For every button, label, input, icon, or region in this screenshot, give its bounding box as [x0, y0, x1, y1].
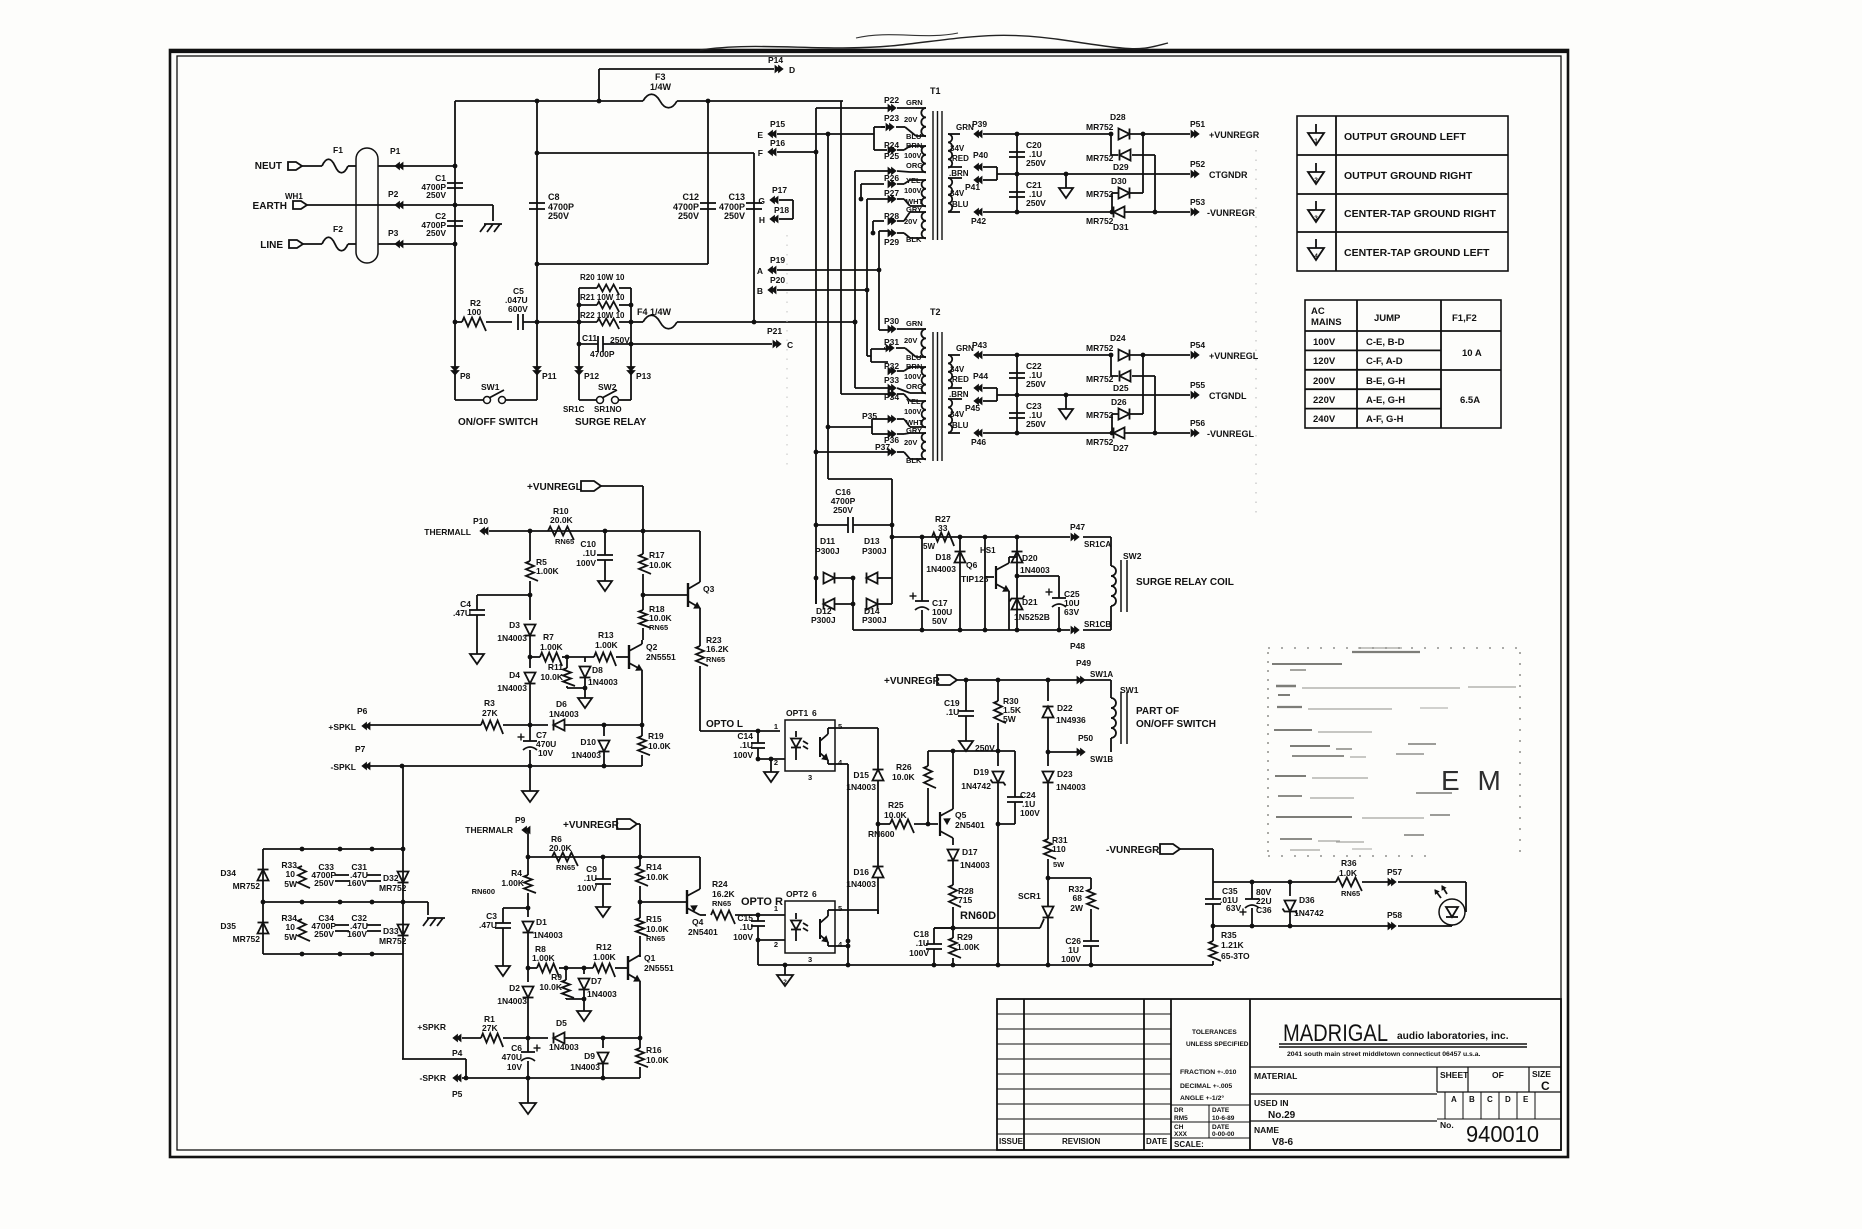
svg-text:.1U: .1U: [740, 740, 753, 750]
svg-text:D5: D5: [556, 1018, 567, 1028]
wire OPT2 bottom to rail: [757, 940, 759, 965]
diode D27 MR752: [1114, 428, 1125, 439]
svg-text:+VUNREGR: +VUNREGR: [563, 820, 620, 831]
svg-text:6: 6: [812, 889, 817, 899]
ground under C10: [598, 581, 612, 591]
svg-text:P300J: P300J: [862, 546, 887, 556]
ground under C19: [959, 741, 973, 751]
svg-text:-VUNREGR: -VUNREGR: [1106, 845, 1160, 856]
wire bottom of C8/C12 loop: [537, 263, 708, 265]
chassis ground of bank: [427, 902, 429, 915]
wire base row y657: [528, 655, 533, 660]
scan artifact wavy line top: [700, 35, 1168, 50]
capacitor C23: [1016, 395, 1018, 433]
svg-text:SW2: SW2: [598, 382, 617, 392]
wire flag to rail: [601, 485, 643, 487]
transformer T1 secondary winding lower: [948, 178, 952, 212]
svg-text:P43: P43: [972, 340, 987, 350]
svg-text:CENTER-TAP GROUND LEFT: CENTER-TAP GROUND LEFT: [1344, 247, 1490, 259]
svg-text:P5: P5: [452, 1089, 463, 1099]
svg-text:audio laboratories, inc.: audio laboratories, inc.: [1397, 1031, 1509, 1042]
wire relay mid y576: [1017, 575, 1059, 577]
svg-text:100V: 100V: [904, 151, 922, 160]
svg-text:R19: R19: [648, 731, 664, 741]
capacitor C35 .01U 63V: [1205, 898, 1221, 900]
fold line dotted: [1255, 150, 1257, 520]
svg-text:C12: C12: [682, 192, 699, 202]
wire routing vertical V1 x816: [815, 108, 817, 604]
svg-text:YEL: YEL: [906, 397, 921, 406]
connector P12: [575, 367, 583, 372]
OPT1 internal LED: [795, 731, 797, 737]
svg-text:R26: R26: [896, 762, 912, 772]
svg-text:20V: 20V: [904, 217, 917, 226]
svg-text:C11: C11: [582, 333, 597, 343]
svg-text:R35: R35: [1221, 930, 1237, 940]
svg-text:P58: P58: [1387, 910, 1402, 920]
capacitor C2: [447, 220, 463, 222]
diode D31 MR752: [1114, 207, 1125, 218]
svg-text:MR752: MR752: [1086, 343, 1114, 353]
diode D1 1N4003: [527, 908, 529, 917]
resistor R24 16.2K RN65: [711, 911, 735, 925]
wire T1 +V rail y134: [1017, 133, 1112, 135]
svg-text:B-E, G-H: B-E, G-H: [1366, 376, 1405, 387]
svg-text:F1: F1: [333, 145, 343, 155]
svg-text:OPT2: OPT2: [786, 889, 808, 899]
svg-text:120V: 120V: [1313, 356, 1336, 367]
wire to P14: [598, 69, 600, 101]
sheet letter strip A-E: [1437, 1091, 1561, 1093]
svg-text:B: B: [757, 286, 763, 296]
wire C14 to pin2: [758, 758, 785, 760]
svg-text:P21: P21: [767, 326, 782, 336]
svg-text:P300J: P300J: [862, 615, 887, 625]
wire R9-D7 join: [566, 998, 584, 1000]
svg-text:BLK: BLK: [906, 235, 922, 244]
svg-text:FRACTION +-.010: FRACTION +-.010: [1180, 1069, 1237, 1076]
svg-text:D33: D33: [383, 926, 399, 936]
svg-text:100V: 100V: [904, 407, 922, 416]
svg-text:THERMALL: THERMALL: [424, 527, 471, 537]
svg-text:MATERIAL: MATERIAL: [1254, 1071, 1297, 1081]
svg-text:D19: D19: [973, 767, 989, 777]
svg-text:P22: P22: [884, 95, 899, 105]
wire P28 jog: [872, 221, 874, 233]
capacitor C21: [1016, 174, 1018, 212]
resistor R16 10.0K: [639, 1038, 641, 1048]
svg-text:P6: P6: [357, 706, 368, 716]
svg-text:USED IN: USED IN: [1254, 1098, 1288, 1108]
svg-text:D10: D10: [580, 737, 596, 747]
resistor R28 715: [949, 885, 961, 907]
transformer T1 core: [932, 111, 934, 240]
svg-text:5W: 5W: [1053, 860, 1065, 869]
diode D8 1N4003: [584, 657, 586, 662]
svg-text:P12: P12: [584, 371, 599, 381]
wire OPT1 pin4 down: [836, 763, 848, 765]
diode D12 P300J: [815, 578, 817, 604]
svg-text:OUTPUT GROUND LEFT: OUTPUT GROUND LEFT: [1344, 131, 1466, 143]
svg-text:1N4003: 1N4003: [926, 564, 956, 574]
svg-text:D30: D30: [1111, 176, 1127, 186]
svg-text:NAME: NAME: [1254, 1125, 1279, 1135]
svg-text:C-F, A-D: C-F, A-D: [1366, 356, 1403, 367]
svg-text:P48: P48: [1070, 641, 1085, 651]
connector P8: [451, 367, 459, 372]
svg-text:1N4003: 1N4003: [846, 782, 876, 792]
wire bank left rail: [262, 849, 264, 954]
svg-text:20V: 20V: [904, 115, 917, 124]
revision table rows: [997, 1013, 1171, 1015]
svg-text:100V: 100V: [1061, 954, 1081, 964]
svg-text:D24: D24: [1110, 333, 1126, 343]
border frame outer: [170, 50, 1568, 1157]
svg-text:MR752: MR752: [1086, 122, 1114, 132]
transformer T2 primary winding group1: [921, 329, 926, 357]
diode D22 1N4936: [1047, 680, 1049, 701]
ground below C6: [527, 1078, 529, 1103]
svg-text:RN65: RN65: [712, 899, 731, 908]
wire to OPT1: [700, 730, 758, 732]
wire base row y968: [528, 967, 537, 969]
svg-text:220V: 220V: [1313, 395, 1336, 406]
svg-text:-SPKR: -SPKR: [420, 1073, 446, 1083]
diode D18 1N4003: [959, 537, 961, 630]
capacitor C6 470U 10V: [527, 1038, 529, 1052]
svg-text:MR752: MR752: [233, 934, 261, 944]
svg-text:100V: 100V: [904, 186, 922, 195]
svg-text:P300J: P300J: [811, 615, 836, 625]
resistor R26 10.0K: [927, 751, 929, 766]
diode D5 1N4003: [554, 1033, 565, 1044]
svg-text:10.0K: 10.0K: [649, 613, 673, 623]
resistor R35 1.21K 65-3TO: [1212, 926, 1214, 941]
diode D16 1N4003: [877, 824, 879, 866]
wire routing vertical V6 x879: [878, 231, 880, 330]
border frame inner: [177, 56, 1561, 1150]
svg-text:Q3: Q3: [703, 584, 715, 594]
svg-text:200V: 200V: [1313, 376, 1336, 387]
resistor R13 1.00K: [567, 656, 594, 658]
wire P15 jog to P23/P24: [873, 127, 875, 150]
svg-text:A-F, G-H: A-F, G-H: [1366, 414, 1404, 425]
resistor R19 10.0K: [641, 725, 643, 736]
capacitor C24 .1U 100V: [1014, 751, 1016, 797]
svg-text:RN65: RN65: [1341, 889, 1360, 898]
svg-text:OPT1: OPT1: [786, 708, 808, 718]
svg-text:R15: R15: [646, 914, 662, 924]
svg-text:SURGE RELAY: SURGE RELAY: [575, 417, 647, 428]
svg-text:+VUNREGR: +VUNREGR: [1209, 130, 1260, 140]
svg-text:SR1CA: SR1CA: [1084, 540, 1111, 549]
diode D21 1N5252B zener: [1016, 576, 1018, 630]
svg-text:G: G: [758, 196, 765, 206]
svg-text:D3: D3: [509, 620, 520, 630]
svg-text:MR752: MR752: [379, 936, 407, 946]
wire -SPKL y766: [370, 765, 642, 767]
svg-text:R4: R4: [511, 868, 522, 878]
cable jacket oval: [356, 148, 378, 263]
svg-text:2N5401: 2N5401: [688, 927, 718, 937]
svg-text:P47: P47: [1070, 522, 1085, 532]
svg-text:DATE: DATE: [1212, 1124, 1230, 1131]
diode D19 1N4742 zener: [997, 751, 999, 766]
wire bus y153: [537, 152, 754, 154]
diode D20 1N4003: [1016, 537, 1018, 576]
svg-text:P15: P15: [770, 119, 785, 129]
svg-text:MR752: MR752: [233, 881, 261, 891]
resistor R7 1.00K: [540, 653, 562, 667]
svg-text:P1: P1: [390, 146, 401, 156]
svg-text:GRN: GRN: [906, 319, 923, 328]
transformer T2 primary winding group3: [922, 401, 926, 427]
svg-text:1N4003: 1N4003: [1020, 565, 1050, 575]
svg-text:D25: D25: [1113, 383, 1129, 393]
ground symbol 3: [1315, 201, 1317, 210]
svg-text:REVISION: REVISION: [1062, 1137, 1100, 1146]
wire earth ground jog: [455, 204, 493, 206]
wire OPT1 pin5 to D15: [836, 727, 878, 729]
svg-text:R22 10W 10: R22 10W 10: [580, 311, 625, 320]
wire P50 to D23 node: [1048, 751, 1078, 753]
svg-text:P55: P55: [1190, 380, 1205, 390]
svg-text:100V: 100V: [733, 932, 753, 942]
capacitor C14 .1U 100V: [757, 731, 759, 743]
svg-text:P8: P8: [460, 371, 471, 381]
svg-text:P54: P54: [1190, 340, 1205, 350]
svg-text:SCALE:: SCALE:: [1174, 1140, 1204, 1149]
svg-text:1N4003: 1N4003: [846, 879, 876, 889]
svg-text:D7: D7: [591, 976, 602, 986]
svg-text:DECIMAL +-.005: DECIMAL +-.005: [1180, 1083, 1232, 1090]
wire +SPKR y1038: [462, 1037, 481, 1039]
svg-text:D11: D11: [820, 536, 835, 546]
transistor Q2 2N5551: [628, 645, 630, 669]
diode D9 1N4003: [602, 1038, 604, 1048]
svg-text:.1U: .1U: [946, 707, 959, 717]
switch SW2 surge relay contact: [597, 397, 604, 404]
svg-text:PART OF: PART OF: [1136, 706, 1179, 717]
svg-text:D2: D2: [509, 983, 520, 993]
svg-text:R36: R36: [1341, 858, 1357, 868]
svg-text:D: D: [789, 65, 795, 75]
svg-text:CTGNDR: CTGNDR: [1209, 170, 1248, 180]
svg-text:P46: P46: [971, 437, 986, 447]
wire routing vertical V3 x841: [840, 101, 842, 394]
svg-text:P3: P3: [388, 228, 399, 238]
svg-text:P25: P25: [884, 151, 899, 161]
resistor R15 10.0K RN65: [639, 902, 641, 918]
svg-text:BLU: BLU: [952, 200, 969, 209]
resistor R18 10.0K RN65: [639, 610, 651, 628]
capacitor C18 .1U 100V: [934, 927, 953, 929]
resistor R3 27K: [481, 721, 503, 735]
svg-text:OUTPUT GROUND RIGHT: OUTPUT GROUND RIGHT: [1344, 170, 1473, 182]
svg-text:6: 6: [812, 708, 817, 718]
svg-text:470U: 470U: [502, 1052, 522, 1062]
svg-text:D23: D23: [1057, 769, 1073, 779]
capacitor C26 1U 100V: [1083, 940, 1099, 942]
optocoupler OPT1 box: [785, 720, 835, 771]
svg-text:CENTER-TAP GROUND RIGHT: CENTER-TAP GROUND RIGHT: [1344, 208, 1496, 220]
capacitor C25 10U 63V: [1058, 576, 1060, 598]
capacitor C36 22U 80V: [1251, 882, 1253, 899]
svg-text:100: 100: [467, 307, 481, 317]
svg-text:250V: 250V: [548, 211, 569, 221]
capacitor C19 .1U: [965, 680, 967, 711]
svg-text:MR752: MR752: [1086, 374, 1114, 384]
transistor Q5 2N5401: [939, 812, 941, 836]
revision table columns: [1023, 999, 1025, 1150]
svg-text:2: 2: [1314, 177, 1318, 184]
svg-text:No.29: No.29: [1268, 1110, 1296, 1121]
svg-text:A-E, G-H: A-E, G-H: [1366, 395, 1405, 406]
svg-text:Q1: Q1: [644, 953, 656, 963]
svg-text:P2: P2: [388, 189, 399, 199]
svg-text:TIP125: TIP125: [961, 574, 989, 584]
svg-text:1N4003: 1N4003: [497, 996, 527, 1006]
capacitor C16: [816, 524, 848, 526]
svg-text:10.0K: 10.0K: [648, 741, 672, 751]
svg-text:P30: P30: [884, 316, 899, 326]
svg-text:C36: C36: [1256, 905, 1272, 915]
ground symbol 4: [1315, 239, 1317, 248]
svg-text:P35: P35: [862, 411, 877, 421]
svg-text:5: 5: [838, 904, 842, 913]
svg-text:P56: P56: [1190, 418, 1205, 428]
svg-text:68: 68: [1073, 893, 1083, 903]
connector P11: [533, 367, 541, 372]
svg-text:P51: P51: [1190, 119, 1205, 129]
transformer T2 secondary winding lower: [948, 399, 952, 433]
svg-text:P44: P44: [973, 371, 988, 381]
svg-text:100V: 100V: [904, 372, 922, 381]
svg-text:+VUNREGR: +VUNREGR: [884, 676, 941, 687]
svg-text:250V: 250V: [1026, 419, 1046, 429]
wire OPT2 pin5 corner: [836, 909, 878, 911]
wire flag corner: [1180, 848, 1213, 850]
diode D29 MR752: [1110, 134, 1112, 155]
wire R bank right rail: [630, 288, 632, 400]
used in row: [1250, 1093, 1437, 1095]
svg-text:E: E: [757, 130, 763, 140]
svg-text:P4: P4: [452, 1048, 463, 1058]
svg-text:RED: RED: [952, 375, 969, 384]
transistor Q6 TIP125: [984, 537, 986, 630]
svg-text:-SPKL: -SPKL: [331, 762, 357, 772]
svg-text:2041 south main street middlet: 2041 south main street middletown connec…: [1287, 1051, 1481, 1058]
svg-text:1: 1: [1314, 138, 1318, 145]
dr/date rows: [1171, 1104, 1250, 1106]
svg-text:-VUNREGL: -VUNREGL: [1207, 429, 1255, 439]
resistor R33 10 5W: [298, 866, 310, 888]
switch SW1 on/off: [484, 397, 491, 404]
ground center-tap left: [1065, 395, 1067, 409]
SCR1 crowbar: [1047, 859, 1049, 906]
svg-text:250V: 250V: [426, 190, 446, 200]
diode D11 P300J: [816, 577, 818, 579]
svg-text:D4: D4: [509, 670, 520, 680]
svg-text:1N4003: 1N4003: [571, 750, 601, 760]
ground on rail: [784, 965, 786, 975]
svg-text:1.00K: 1.00K: [501, 878, 525, 888]
capacitor C4 .47U: [477, 594, 530, 596]
svg-text:1N4742: 1N4742: [961, 781, 991, 791]
svg-text:RED: RED: [952, 154, 969, 163]
svg-text:A: A: [1451, 1095, 1457, 1104]
diode D32 MR752: [398, 872, 409, 883]
resistor R6 20.0K: [552, 853, 578, 867]
svg-text:No.: No.: [1440, 1120, 1454, 1130]
svg-text:ORG: ORG: [906, 161, 923, 170]
ground below C7: [529, 766, 531, 791]
wire bank mid rail y902: [263, 901, 428, 903]
svg-text:JUMP: JUMP: [1374, 313, 1401, 324]
transformer T1 primary winding 100V group2: [922, 146, 926, 172]
svg-text:RN65: RN65: [646, 934, 665, 943]
svg-text:C13: C13: [728, 192, 745, 202]
svg-text:SW1: SW1: [1120, 685, 1139, 695]
svg-text:+VUNREGL: +VUNREGL: [527, 482, 582, 493]
svg-text:THERMALR: THERMALR: [465, 825, 513, 835]
svg-text:RN65: RN65: [706, 655, 725, 664]
OPT2 internal phototransistor: [819, 919, 821, 939]
resistor R11 10.0K: [566, 657, 568, 668]
diode D34 MR752: [258, 870, 269, 881]
resistor R10 20.0K: [548, 527, 574, 541]
svg-text:RN65: RN65: [555, 537, 574, 546]
diode D4 1N4003: [529, 657, 531, 668]
svg-text:110: 110: [1052, 844, 1066, 854]
svg-text:D29: D29: [1113, 162, 1129, 172]
svg-text:2N5551: 2N5551: [644, 963, 674, 973]
svg-text:10.0K: 10.0K: [892, 772, 916, 782]
svg-text:20V: 20V: [904, 438, 917, 447]
svg-text:1N4742: 1N4742: [1294, 908, 1324, 918]
svg-text:SIZE: SIZE: [1532, 1069, 1551, 1079]
svg-text:DATE: DATE: [1212, 1107, 1230, 1114]
svg-text:.1U: .1U: [584, 873, 597, 883]
svg-text:D8: D8: [592, 665, 603, 675]
svg-text:5: 5: [838, 722, 842, 731]
svg-text:3: 3: [1314, 215, 1318, 222]
svg-text:SR1CB: SR1CB: [1084, 620, 1111, 629]
svg-text:250V: 250V: [1026, 158, 1046, 168]
svg-text:D9: D9: [584, 1051, 595, 1061]
svg-text:R25: R25: [888, 800, 904, 810]
capacitor C9 .1U 100V: [602, 857, 604, 879]
svg-text:P57: P57: [1387, 867, 1402, 877]
svg-text:250V: 250V: [1026, 198, 1046, 208]
svg-text:DR: DR: [1174, 1107, 1184, 1114]
svg-text:F2: F2: [333, 224, 343, 234]
wire LINE to P3: [378, 243, 455, 245]
svg-text:D6: D6: [556, 699, 567, 709]
svg-text:ON/OFF SWITCH: ON/OFF SWITCH: [458, 417, 538, 428]
svg-text:Q4: Q4: [692, 917, 704, 927]
svg-text:MR752: MR752: [379, 883, 407, 893]
svg-text:R3: R3: [484, 698, 495, 708]
diode D23 1N4003: [1047, 752, 1049, 766]
capacitor C12: [707, 101, 709, 264]
surge relay coil SW2: [1083, 536, 1111, 538]
svg-text:250V: 250V: [426, 228, 446, 238]
transformer T2 primary winding group2: [922, 367, 926, 393]
svg-text:10.0K: 10.0K: [540, 672, 564, 682]
wire T2 -V rail: [1017, 432, 1113, 434]
svg-text:100V: 100V: [577, 883, 597, 893]
